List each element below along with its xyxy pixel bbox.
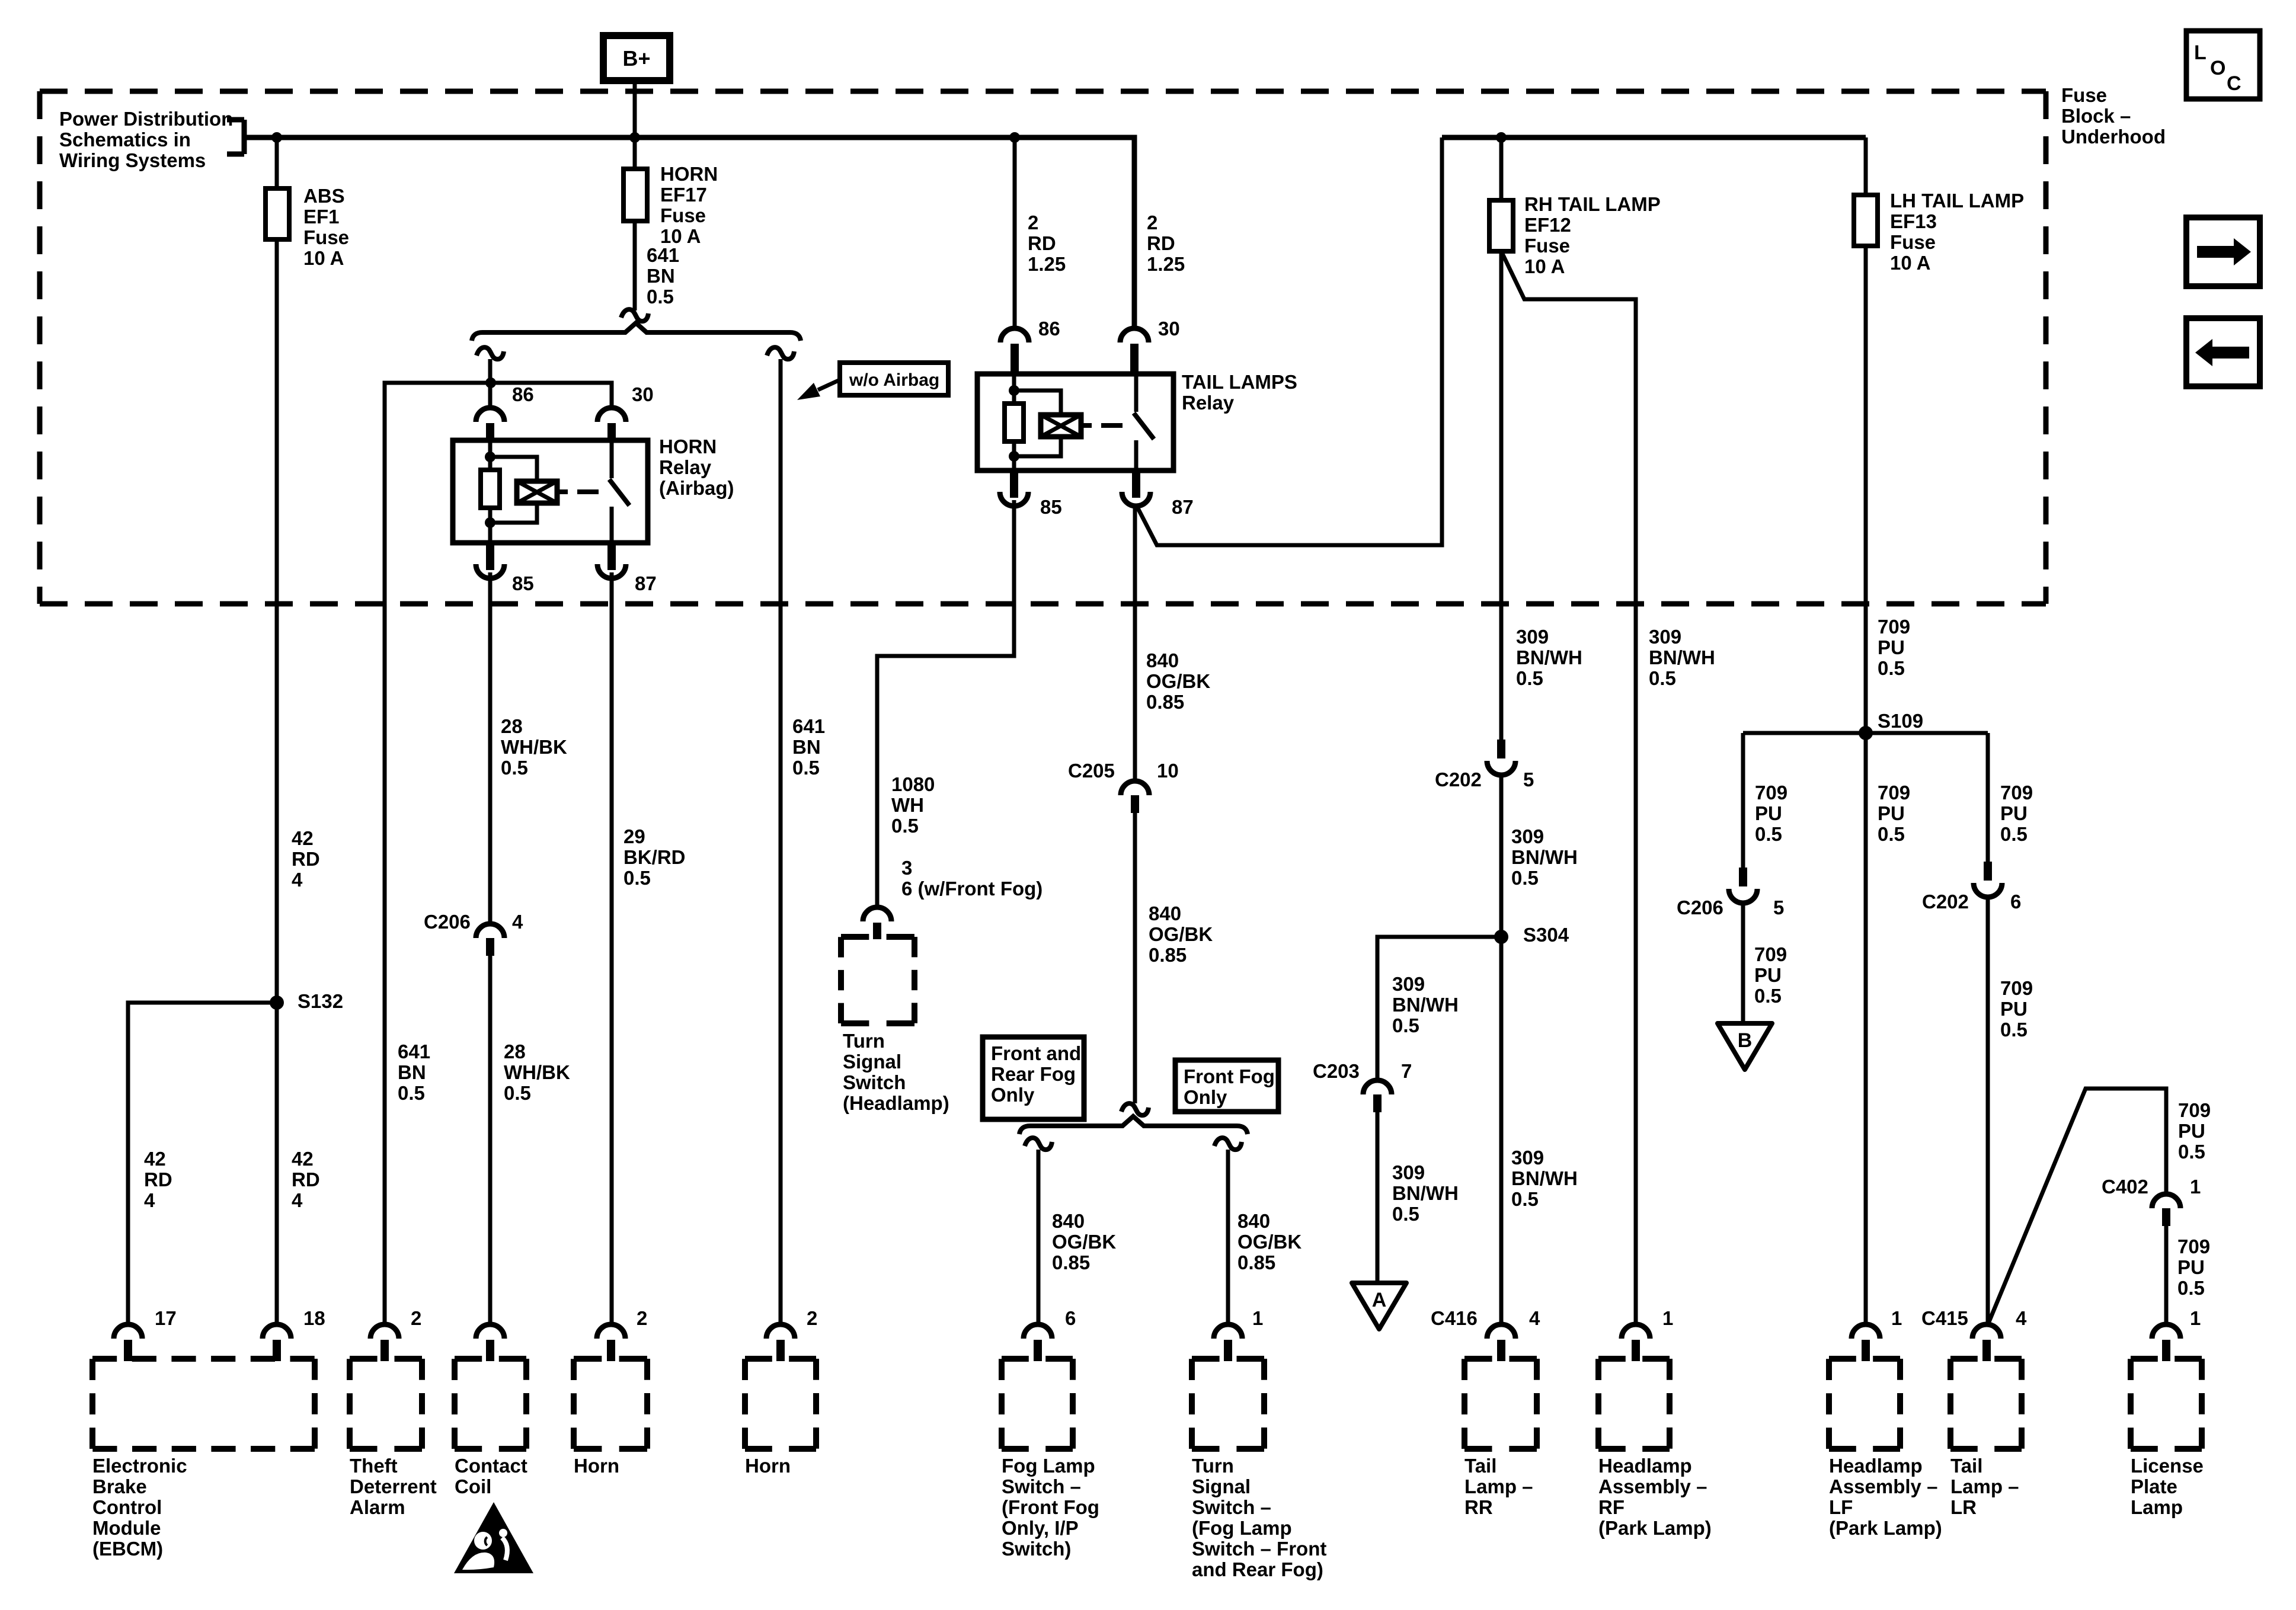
svg-text:Turn: Turn [843,1030,885,1052]
svg-text:0.5: 0.5 [1878,823,1905,845]
svg-text:Horn: Horn [574,1455,619,1477]
svg-text:10 A: 10 A [1890,252,1930,274]
svg-text:C402: C402 [2102,1176,2148,1198]
relay HORN (Airbag) switch [610,440,614,478]
svg-text:2: 2 [637,1307,647,1329]
svg-text:709: 709 [1878,616,1910,638]
wire 42 RD 4 (S132 to EBCM 17) [128,1003,277,1323]
wire 641 BN 0.5 to horn (w/o airbag) [779,359,783,1323]
svg-text:4: 4 [292,869,303,891]
svg-text:LH TAIL LAMP: LH TAIL LAMP [1890,190,2024,212]
svg-text:Fog Lamp: Fog Lamp [1002,1455,1095,1477]
svg-text:A: A [1372,1289,1387,1311]
svg-text:840: 840 [1237,1210,1270,1232]
svg-text:Electronic: Electronic [92,1455,187,1477]
fuse EF12 (RH TAIL LAMP 10A) [1489,200,1513,251]
node bus-HORN junction [629,132,640,143]
relay TAIL LAMPS switch [1134,374,1139,412]
svg-text:87: 87 [1172,496,1194,518]
svg-text:S109: S109 [1878,710,1923,732]
tail relay pin 30 connector [1120,328,1149,343]
svg-text:2: 2 [1147,212,1157,233]
svg-text:BN/WH: BN/WH [1511,1167,1578,1189]
svg-text:42: 42 [292,1148,314,1170]
horn relay pin 85 connector [486,543,494,570]
connector C203 pin 7 [1363,1080,1392,1094]
wire bus to fuse EF12 [1499,137,1504,200]
svg-text:Lamp –: Lamp – [1950,1475,2019,1497]
svg-text:C202: C202 [1922,891,1969,913]
wire tail lamp LR to C402 (diagonal) [1988,1089,2166,1323]
svg-text:4: 4 [512,911,523,933]
svg-text:641: 641 [792,715,825,737]
svg-text:1: 1 [2190,1307,2201,1329]
svg-text:0.85: 0.85 [1149,944,1187,966]
wire bus to fuse EF1 [275,137,279,188]
svg-text:Assembly –: Assembly – [1598,1475,1707,1497]
svg-text:Signal: Signal [843,1051,901,1073]
svg-text:87: 87 [635,572,657,594]
wire 709 PU 0.5 (C206 to ground B) [1741,901,1745,1023]
fuse EF17 (HORN 10A) [623,169,647,221]
svg-text:Plate: Plate [2131,1475,2177,1497]
svg-text:6: 6 [2010,891,2021,913]
svg-text:C416: C416 [1431,1307,1478,1329]
svg-text:Fuse: Fuse [303,226,349,248]
svg-text:709: 709 [1878,782,1910,804]
wire S304 branch to C203 [1377,937,1501,1080]
svg-text:OG/BK: OG/BK [1146,670,1210,692]
svg-text:BN: BN [647,265,675,287]
connector break above fog brace [1121,1103,1149,1115]
wire 309 BN/WH 0.5 (C203 to ground A) [1376,1112,1380,1283]
svg-text:86: 86 [1038,318,1060,340]
svg-text:BN/WH: BN/WH [1516,646,1582,668]
svg-text:1: 1 [1252,1307,1263,1329]
svg-text:7: 7 [1401,1060,1412,1082]
wire 641 BN 0.5 (EF17 down) [633,221,637,311]
legend left arrow box [2186,318,2260,386]
svg-text:(Park Lamp): (Park Lamp) [1598,1517,1712,1539]
svg-text:0.5: 0.5 [1878,657,1905,679]
svg-text:HORN: HORN [659,436,717,457]
svg-text:86: 86 [512,383,534,405]
svg-text:0.5: 0.5 [501,757,528,779]
svg-text:Lamp: Lamp [2131,1496,2183,1518]
svg-text:1: 1 [1662,1307,1673,1329]
svg-text:BN/WH: BN/WH [1649,646,1715,668]
svg-text:Only: Only [991,1084,1035,1106]
svg-text:Fuse: Fuse [2061,84,2107,106]
svg-text:PU: PU [1878,636,1905,658]
svg-text:S304: S304 [1523,924,1569,946]
svg-text:840: 840 [1149,902,1181,924]
svg-text:10 A: 10 A [303,247,344,269]
wire tail relay 87 to fuse feed bus [1136,137,1442,545]
svg-text:Front Fog: Front Fog [1184,1065,1275,1087]
svg-text:PU: PU [2177,1256,2205,1278]
svg-text:C202: C202 [1435,769,1482,790]
svg-text:2: 2 [1028,212,1038,233]
svg-text:85: 85 [512,572,534,594]
wire 840 OG/BK 0.85 (tail relay 87 down to C205) [1133,505,1137,781]
svg-text:2: 2 [807,1307,817,1329]
svg-text:0.5: 0.5 [623,867,651,889]
callout Front and Rear Fog Only [983,1037,1084,1119]
wire 709 PU 0.5 (C202-6 to tail lamp LR) [1986,895,1990,1323]
wire horn relay 86 feed [488,359,493,408]
tail relay pin 87 connector [1132,470,1140,498]
node bus-ABS junction [271,132,282,143]
svg-text:License: License [2131,1455,2204,1477]
svg-text:C206: C206 [424,911,471,933]
svg-text:Tail: Tail [1464,1455,1496,1477]
svg-text:ABS: ABS [303,185,345,207]
svg-text:RH TAIL LAMP: RH TAIL LAMP [1524,193,1661,215]
connector C206 pin 5 [1739,868,1747,886]
svg-text:Headlamp: Headlamp [1598,1455,1692,1477]
svg-text:Block –: Block – [2061,105,2131,127]
svg-text:Relay: Relay [1182,392,1235,414]
svg-text:Contact: Contact [455,1455,527,1477]
svg-text:PU: PU [1878,802,1905,824]
svg-text:0.5: 0.5 [1511,1188,1539,1210]
svg-text:BN/WH: BN/WH [1511,846,1578,868]
svg-text:42: 42 [292,827,314,849]
svg-text:w/o Airbag: w/o Airbag [849,370,939,390]
svg-text:Assembly –: Assembly – [1829,1475,1937,1497]
svg-text:RD: RD [1147,232,1175,254]
connector C415 pin 4 / component Tail Lamp LR [1972,1324,2001,1339]
svg-text:PU: PU [1755,802,1782,824]
svg-text:6: 6 [1065,1307,1076,1329]
svg-text:C415: C415 [1921,1307,1968,1329]
svg-text:Switch: Switch [843,1071,906,1093]
relay TAIL LAMPS coil circuit [1012,374,1016,404]
svg-text:6 (w/Front Fog): 6 (w/Front Fog) [901,878,1043,900]
svg-text:0.5: 0.5 [1754,985,1782,1007]
svg-text:RD: RD [144,1169,172,1190]
svg-text:PU: PU [2178,1120,2205,1142]
wire 840 OG/BK 0.85 (to turn signal switch fog) [1226,1150,1230,1323]
svg-text:0.5: 0.5 [792,757,820,779]
svg-text:and Rear Fog): and Rear Fog) [1192,1558,1323,1580]
svg-text:(Park Lamp): (Park Lamp) [1829,1517,1942,1539]
svg-text:309: 309 [1392,973,1425,995]
svg-text:EF12: EF12 [1524,214,1571,236]
svg-text:0.85: 0.85 [1237,1251,1275,1273]
svg-text:0.85: 0.85 [1052,1251,1090,1273]
svg-text:1: 1 [2190,1176,2201,1198]
wire main B+ bus [244,137,1134,328]
svg-text:Brake: Brake [92,1475,147,1497]
component License Plate Lamp [2152,1324,2180,1339]
svg-text:OG/BK: OG/BK [1149,923,1213,945]
arrow w/o airbag [818,380,840,390]
horn relay pin 30 connector [597,408,626,422]
svg-text:Rear Fog: Rear Fog [991,1063,1076,1085]
svg-text:30: 30 [632,383,654,405]
bracket [242,120,247,154]
brace horn options [472,323,801,341]
svg-text:840: 840 [1146,649,1179,671]
svg-text:Wiring Systems: Wiring Systems [59,149,206,171]
node horn-86 junction [485,377,496,388]
relay HORN (Airbag) box [453,440,648,543]
wire 709 PU 0.5 (C402 to license plate lamp) [2164,1226,2169,1323]
wire branch to theft deterrent alarm [385,383,491,1323]
svg-text:1: 1 [1891,1307,1902,1329]
connector C416 pin 4 / component Tail Lamp RR [1487,1324,1515,1339]
svg-text:Front and: Front and [991,1042,1081,1064]
svg-text:309: 309 [1392,1161,1425,1183]
svg-text:29: 29 [623,825,645,847]
svg-text:0.5: 0.5 [1516,667,1543,689]
svg-text:WH/BK: WH/BK [501,736,567,758]
svg-text:B: B [1738,1029,1753,1052]
svg-text:EF17: EF17 [660,184,707,206]
brace fog options [1019,1116,1248,1134]
svg-text:0.5: 0.5 [647,286,674,308]
wire 709 PU 0.5 (S109 to C206-5) [1741,733,1745,868]
svg-text:Horn: Horn [745,1455,791,1477]
svg-text:BN: BN [398,1061,426,1083]
svg-text:0.5: 0.5 [1649,667,1676,689]
svg-text:709: 709 [2177,1235,2210,1257]
svg-text:2: 2 [411,1307,421,1329]
svg-text:709: 709 [2000,782,2033,804]
svg-text:1.25: 1.25 [1028,253,1066,275]
TSS headlamp pin connector [863,907,891,921]
svg-text:641: 641 [398,1041,430,1062]
component Fog Lamp Switch [1024,1324,1052,1339]
relay TAIL LAMPS box [977,374,1173,470]
wire 309 BN/WH 0.5 (C202 to S304) [1499,773,1504,937]
svg-text:Fuse: Fuse [660,204,706,226]
svg-text:Turn: Turn [1192,1455,1234,1477]
svg-text:RF: RF [1598,1496,1625,1518]
svg-text:(Front Fog: (Front Fog [1002,1496,1099,1518]
svg-text:PU: PU [1754,964,1782,986]
svg-text:RD: RD [1028,232,1056,254]
svg-text:Headlamp: Headlamp [1829,1455,1923,1477]
horn relay pin 86 connector [476,408,504,422]
svg-text:0.85: 0.85 [1146,691,1184,713]
connector break right fog drop [1214,1138,1242,1150]
connector C205 pin 10 [1121,781,1149,795]
svg-text:O: O [2210,57,2225,79]
component Horn 2 [766,1324,795,1339]
svg-text:5: 5 [1523,769,1534,790]
node bus-EF12 junction [1496,132,1507,143]
wire 709 PU 0.5 (EF13 to S109) [1864,246,1868,733]
svg-text:EF1: EF1 [303,206,340,228]
svg-text:Switch): Switch) [1002,1538,1071,1560]
svg-text:Deterrent: Deterrent [350,1475,437,1497]
callout w/o Airbag [840,363,948,395]
EBCM pin 17 connector [114,1324,142,1339]
svg-text:Coil: Coil [455,1475,491,1497]
connector break on 641 BN [621,309,648,321]
svg-text:709: 709 [1754,943,1787,965]
svg-text:BN/WH: BN/WH [1392,1182,1459,1204]
svg-text:10: 10 [1157,760,1179,782]
svg-text:0.5: 0.5 [2000,1019,2028,1041]
wire B+ to bus [633,81,637,137]
svg-text:Underhood: Underhood [2061,126,2166,148]
svg-text:Switch – Front: Switch – Front [1192,1538,1326,1560]
tail relay pin 85 connector [1010,470,1018,498]
svg-text:709: 709 [1755,782,1787,804]
svg-text:309: 309 [1516,626,1549,648]
svg-text:0.5: 0.5 [2178,1141,2205,1163]
svg-text:Theft: Theft [350,1455,398,1477]
svg-text:709: 709 [2178,1099,2211,1121]
wire 42 RD 4 (EF1 to S132) [275,239,279,1003]
svg-text:3: 3 [901,857,912,879]
node bus-tail-relay-86 junction [1009,132,1020,143]
svg-text:BN: BN [792,736,821,758]
svg-text:42: 42 [144,1148,166,1170]
svg-text:BN/WH: BN/WH [1392,994,1459,1016]
svg-text:0.5: 0.5 [2000,823,2028,845]
svg-text:PU: PU [2000,998,2028,1020]
svg-text:0.5: 0.5 [1392,1014,1419,1036]
svg-text:10 A: 10 A [1524,255,1565,277]
svg-text:309: 309 [1511,825,1544,847]
svg-text:EF13: EF13 [1890,210,1937,232]
svg-text:Fuse: Fuse [1524,235,1570,257]
wire 309 BN/WH 0.5 (S304 to tail lamp RR) [1499,937,1504,1323]
svg-text:(Airbag): (Airbag) [659,477,734,499]
component Headlamp Assembly LF [1851,1324,1880,1339]
legend right arrow box [2186,217,2260,286]
svg-text:Module: Module [92,1517,161,1539]
svg-text:4: 4 [1529,1307,1540,1329]
svg-text:18: 18 [303,1307,325,1329]
wire 28 WH/BK 0.5 (C206 to contact coil) [488,956,493,1323]
component Turn Signal Switch (fog) [1214,1324,1242,1339]
svg-text:BK/RD: BK/RD [623,846,686,868]
wire 28 WH/BK 0.5 (horn relay 85 to C206) [488,572,493,924]
svg-text:0.5: 0.5 [504,1082,531,1104]
wire bus to fuse EF13 [1864,137,1868,195]
connector C206 pin 4 [476,924,504,938]
wire 2 RD 1.25 (bus to tail relay 86) [1013,137,1017,328]
svg-text:LF: LF [1829,1496,1853,1518]
wire bus to fuse EF17 [633,137,637,169]
ground reference A triangle [1352,1283,1406,1329]
wire 42 RD 4 (S132 to EBCM 18) [275,1003,279,1323]
fuse EF13 (LH TAIL LAMP 10A) [1854,195,1878,246]
connector break left (to horn relay) [477,347,504,359]
svg-text:17: 17 [155,1307,177,1329]
svg-text:4: 4 [2016,1307,2027,1329]
relay HORN (Airbag) coil circuit [488,440,493,470]
svg-text:OG/BK: OG/BK [1052,1231,1116,1253]
svg-text:Power Distribution: Power Distribution [59,108,233,130]
svg-text:Lamp –: Lamp – [1464,1475,1533,1497]
legend LOC box [2186,31,2260,99]
node S109 splice [1859,726,1873,740]
svg-text:28: 28 [504,1041,526,1062]
svg-text:309: 309 [1511,1147,1544,1169]
wire 1080 WH 0.5 (tail relay 85 to TSS) [877,500,1014,907]
airbag caution icon [454,1502,533,1573]
wire 309 BN/WH 0.5 (EF12 to C202-5) [1499,251,1504,740]
svg-text:Only: Only [1184,1086,1227,1108]
component Turn Signal Switch (Headlamp) dashed box [841,934,914,940]
fuse EF1 (ABS 10A) [266,188,289,239]
svg-text:C205: C205 [1068,760,1115,782]
ground reference B triangle [1718,1023,1772,1070]
wire 840 OG/BK 0.85 (to fog lamp switch) [1037,1150,1041,1323]
svg-text:840: 840 [1052,1210,1085,1232]
svg-text:RD: RD [292,1169,320,1190]
wire 840 OG/BK 0.85 (C205 to fog brace) [1133,813,1137,1103]
callout Front Fog Only [1175,1060,1278,1112]
svg-text:709: 709 [2000,977,2033,999]
wire 709 PU 0.5 (S109 to C202-6) [1986,733,1990,862]
power symbol B+ [603,36,670,81]
svg-text:Only, I/P: Only, I/P [1002,1517,1079,1539]
tail relay pin 86 connector [1000,328,1029,343]
svg-text:PU: PU [2000,802,2028,824]
svg-text:0.5: 0.5 [1392,1203,1419,1225]
svg-text:Fuse: Fuse [1890,231,1936,253]
svg-text:RD: RD [292,848,320,870]
svg-text:85: 85 [1040,496,1062,518]
connector C402 pin 1 [2152,1194,2180,1208]
svg-text:5: 5 [1773,897,1784,918]
svg-text:Switch –: Switch – [1002,1475,1081,1497]
connector C202 pin 5 [1497,740,1505,758]
svg-text:30: 30 [1158,318,1180,340]
svg-text:C203: C203 [1313,1060,1360,1082]
svg-text:1.25: 1.25 [1147,253,1185,275]
svg-text:(EBCM): (EBCM) [92,1538,163,1560]
svg-text:Signal: Signal [1192,1475,1251,1497]
svg-text:309: 309 [1649,626,1681,648]
svg-text:28: 28 [501,715,523,737]
svg-text:Relay: Relay [659,456,712,478]
component Horn 1 [597,1324,625,1339]
svg-text:S132: S132 [298,990,343,1012]
horn relay pin 87 connector [607,543,616,570]
svg-text:Tail: Tail [1950,1455,1982,1477]
svg-text:Control: Control [92,1496,162,1518]
svg-text:C: C [2227,72,2241,95]
wire 29 BK/RD 0.5 (horn relay 87 to horn) [610,572,614,1323]
svg-text:LR: LR [1950,1496,1977,1518]
fuse block underhood dashed border [40,89,2046,94]
node S132 splice [270,996,284,1010]
svg-text:TAIL LAMPS: TAIL LAMPS [1182,371,1297,393]
svg-text:L: L [2194,41,2207,64]
component Theft Deterrent Alarm [370,1324,399,1339]
wire junction to horn relay pin30 [491,383,612,408]
wire 709 PU 0.5 (S109 to headlamp LF) [1864,733,1868,1323]
svg-text:0.5: 0.5 [398,1082,425,1104]
EBCM pin 18 connector [263,1324,291,1339]
svg-text:WH: WH [891,794,924,816]
svg-text:0.5: 0.5 [1755,823,1782,845]
node S304 splice [1494,930,1508,944]
svg-text:0.5: 0.5 [1511,867,1539,889]
svg-text:641: 641 [647,244,679,266]
svg-text:WH/BK: WH/BK [504,1061,570,1083]
svg-text:RR: RR [1464,1496,1493,1518]
